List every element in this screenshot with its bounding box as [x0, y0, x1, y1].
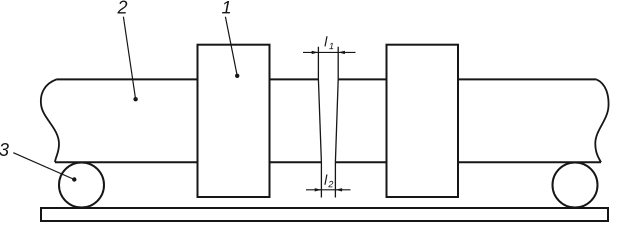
wire beam bottom edge left run	[55, 161, 321, 163]
gap line left (pipe end face)	[318, 47, 321, 198]
arrowhead l2 right	[335, 188, 342, 191]
wire beam top edge left run	[57, 78, 319, 80]
roller left	[59, 163, 104, 208]
dimension line l2	[306, 189, 351, 191]
leader dot 1	[235, 74, 239, 78]
label l1	[324, 36, 333, 49]
leader for label 1	[225, 17, 237, 76]
svg-text:3: 3	[0, 140, 9, 160]
wire beam top edge right run	[338, 78, 596, 80]
arrowhead l1 left	[312, 51, 319, 54]
wire beam bottom edge right run	[335, 161, 601, 163]
leader dot 3	[72, 177, 76, 181]
arrowhead l2 left	[315, 188, 322, 191]
leader for label 2	[123, 17, 135, 100]
base plate	[41, 208, 608, 221]
gap line right (pipe end face)	[335, 47, 338, 198]
svg-text:2: 2	[117, 0, 128, 18]
arrowhead l1 right	[338, 51, 345, 54]
roller right	[553, 163, 598, 208]
beam right break curve	[595, 79, 608, 162]
block 1 (left clamp)	[198, 45, 270, 197]
label 1	[222, 1, 230, 13]
block 2 (right clamp)	[387, 45, 459, 197]
dimension line l1	[303, 51, 356, 53]
leader dot 2	[133, 97, 137, 101]
beam left break curve	[41, 79, 59, 162]
label l2	[324, 175, 333, 188]
leader for label 3	[13, 153, 74, 180]
